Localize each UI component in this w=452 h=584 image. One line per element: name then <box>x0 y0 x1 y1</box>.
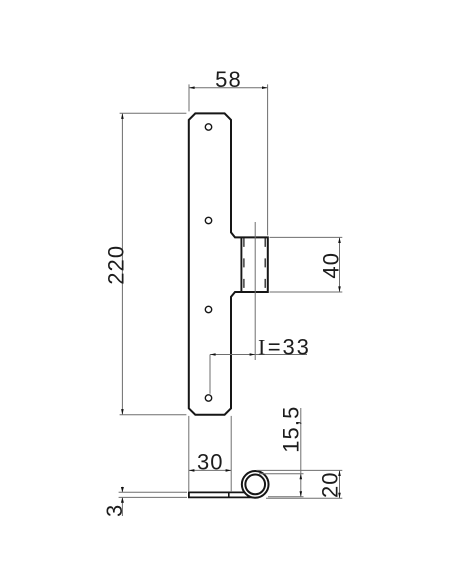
dimension 30 dim line <box>189 469 231 471</box>
dimension 20 dim line <box>339 470 341 498</box>
plate outline (front view, chamfered corners, knuckle protrusion right) <box>189 113 268 414</box>
dimension 3 arrow bottom (outside, pointing up) <box>121 497 124 502</box>
svg-text:58: 58 <box>215 67 242 92</box>
dimension 58 arrow left <box>189 86 195 89</box>
dimension 40 extension line bottom <box>270 291 343 293</box>
knuckle hidden line left (dashed) <box>243 238 245 292</box>
dimension 30 arrow left <box>189 469 195 472</box>
dimension 58 dim line <box>189 87 268 89</box>
hole 3 <box>205 306 211 312</box>
projection line left (plate left edge to side view) <box>188 416 190 491</box>
knuckle centerline <box>254 222 256 360</box>
side view plate edge tick <box>228 492 230 497</box>
dimension 15,5 extension line bottom <box>268 496 304 498</box>
dimension 58 extension line left <box>188 84 190 111</box>
svg-text:220: 220 <box>104 245 129 285</box>
dimension 15,5 arrow top <box>300 474 303 480</box>
dimension I=33 dim line <box>210 354 307 356</box>
side view plate <box>188 492 244 497</box>
knuckle rolled edge line <box>240 237 242 292</box>
dimension 3 dim line bottom segment <box>121 497 123 516</box>
dimension 30 arrow right <box>226 469 232 472</box>
dimension 58 arrow right <box>262 86 268 89</box>
svg-text:I=33: I=33 <box>258 334 311 359</box>
dimension I=33 arrow left <box>210 353 216 356</box>
dimension 220 extension line bottom <box>120 414 187 416</box>
dimension 40 arrow top <box>338 237 341 243</box>
dimension 20 arrow top <box>338 470 341 476</box>
dimension 220 arrow bottom <box>121 409 124 415</box>
dimension 220 extension line top <box>120 112 187 114</box>
coil outer circle <box>242 471 269 498</box>
dimension 3 extension line top <box>119 491 187 493</box>
dimension 20 extension line top <box>257 469 343 471</box>
dimension 3 extension line bottom <box>119 496 187 498</box>
dimension 220 arrow top <box>121 113 124 119</box>
dimension 3 arrow top (outside, pointing down) <box>121 487 124 492</box>
svg-text:20: 20 <box>318 471 343 498</box>
projection line right (plate right edge to side view) <box>230 416 232 491</box>
dimension 20 extension line bottom <box>266 497 342 499</box>
svg-text:40: 40 <box>318 252 343 279</box>
hole 4 <box>205 395 211 401</box>
dimension 40 extension line top <box>270 236 343 238</box>
dimension 40 dim line <box>339 237 341 292</box>
dimension I=33 arrow right <box>250 353 256 356</box>
dimension 15,5 extension line top <box>259 473 304 475</box>
hole 1 <box>205 124 211 130</box>
dimension 15,5 dim line <box>300 408 302 497</box>
hole 2 <box>205 217 211 223</box>
knuckle hidden line right (dashed) <box>264 238 266 292</box>
dimension 58 extension line right <box>267 84 269 235</box>
dimension 40 arrow bottom <box>338 286 341 292</box>
dimension 3 dim line top segment <box>121 487 123 493</box>
svg-text:3: 3 <box>102 504 127 517</box>
dimension I=33 extension line to hole 4 <box>209 355 211 394</box>
dimension 220 dim line <box>121 113 123 414</box>
svg-text:15,5: 15,5 <box>279 406 304 453</box>
dimension 20 arrow bottom <box>338 493 341 499</box>
svg-text:30: 30 <box>197 450 224 475</box>
coil inner circle <box>245 475 265 495</box>
dimension 15,5 arrow bottom <box>300 491 303 497</box>
